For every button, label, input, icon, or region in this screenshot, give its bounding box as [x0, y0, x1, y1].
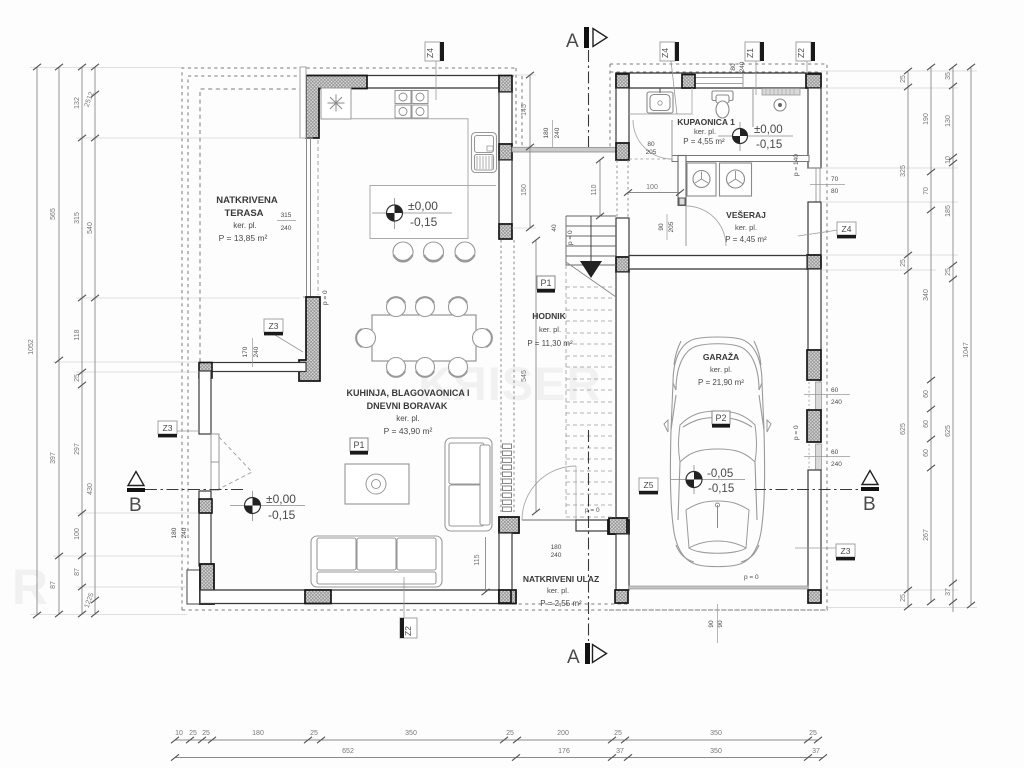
svg-text:240: 240: [554, 127, 561, 138]
section line B-B: [145, 489, 860, 491]
entrance SW hatched pier: [499, 517, 519, 533]
garage SE hatched square: [808, 590, 821, 603]
veseraj door leaf and arc: [685, 206, 687, 246]
dimension column 2 left: [58, 67, 60, 614]
svg-text:25: 25: [189, 730, 197, 737]
label box Z4 top-mid with leader: [660, 42, 679, 114]
svg-text:350: 350: [710, 748, 722, 755]
west window glazing: [303, 138, 313, 297]
shower partition: [752, 88, 754, 127]
svg-text:P = 4,45 m²: P = 4,45 m²: [725, 235, 767, 244]
svg-text:37: 37: [616, 748, 624, 755]
shower head: [774, 99, 786, 111]
svg-text:p = 0: p = 0: [585, 507, 600, 514]
label box Z4 right with leader: [798, 222, 856, 238]
garage bottom dashed eave: [609, 609, 828, 611]
passage dashed opening: [617, 160, 628, 218]
svg-text:60: 60: [923, 449, 930, 457]
svg-text:190: 190: [923, 113, 930, 125]
svg-text:KUHINJA, BLAGOVAONICA I: KUHINJA, BLAGOVAONICA I: [346, 388, 469, 398]
svg-text:180: 180: [252, 730, 264, 737]
svg-text:P = 11,30 m²: P = 11,30 m²: [527, 339, 573, 348]
svg-text:HODNIK: HODNIK: [532, 311, 566, 321]
svg-text:240: 240: [551, 552, 562, 559]
west living room wall lower: [199, 491, 211, 566]
svg-text:GARAŽA: GARAŽA: [703, 351, 739, 362]
svg-text:Z5: Z5: [644, 480, 654, 490]
dim 100 hodnik passage: [628, 192, 680, 194]
garage west wall lower: [616, 534, 629, 590]
tiny dim 315/240 window: [277, 212, 296, 232]
east wall hatched pier: [807, 255, 821, 269]
svg-text:P1: P1: [540, 278, 551, 288]
tiny dim 180/240 west door: [171, 527, 188, 538]
kitchen sink: [472, 133, 497, 173]
dimension column 2 right: [930, 67, 932, 602]
svg-text:35: 35: [945, 72, 952, 80]
dimension column 4 left: [94, 67, 96, 614]
bathroom door opening dashes: [629, 158, 672, 160]
tiny dim 60/240 east wall upper: [804, 387, 850, 406]
svg-text:P = 13,85 m²: P = 13,85 m²: [219, 233, 268, 243]
svg-text:132: 132: [74, 97, 81, 109]
dining chairs top row: [387, 298, 468, 317]
eave dashed outline left building outer: [182, 68, 828, 610]
dimension column 3 left: [81, 67, 83, 614]
tiny dim 90/240 entrance door: [551, 544, 562, 559]
svg-text:115: 115: [474, 554, 481, 565]
stairs direction line and arrow: [590, 216, 592, 261]
west wall of right building upper band: [616, 88, 629, 143]
svg-text:-0,15: -0,15: [708, 483, 734, 495]
veseraj south wall: [629, 256, 807, 270]
svg-text:70: 70: [923, 187, 930, 195]
east wall upper band: [808, 88, 821, 168]
svg-text:25: 25: [74, 374, 81, 382]
SW hatched pier: [200, 564, 214, 604]
west wall hatched pier 2: [616, 143, 629, 160]
kitchen NW corner hatched wall: [306, 76, 367, 139]
svg-text:25: 25: [614, 730, 622, 737]
east wall window A: [809, 382, 822, 410]
svg-text:80: 80: [730, 63, 737, 71]
svg-text:p = 0: p = 0: [744, 574, 759, 581]
svg-text:297: 297: [74, 443, 81, 455]
svg-text:240: 240: [281, 225, 292, 232]
SW footing rectangle: [187, 570, 200, 604]
svg-text:2512: 2512: [84, 91, 96, 108]
hatched square NW of living room: [199, 363, 212, 379]
west outer face strip above window: [300, 67, 306, 138]
tiny dim 170/240 left wall: [242, 338, 260, 367]
svg-text:176: 176: [558, 748, 570, 755]
garage west wall: [616, 272, 629, 518]
svg-text:80: 80: [647, 141, 655, 148]
svg-text:25: 25: [202, 730, 210, 737]
svg-text:130: 130: [945, 115, 952, 127]
svg-text:37: 37: [812, 748, 820, 755]
hodnik boundary dashed lines: [501, 240, 514, 512]
svg-text:Z4: Z4: [425, 48, 435, 58]
west door swing dashes: [219, 437, 252, 489]
terrace-living interior wall: [199, 363, 306, 372]
label box P2 garage: [712, 411, 730, 428]
svg-text:25: 25: [506, 730, 514, 737]
shower shelf: [762, 89, 800, 96]
svg-text:1047: 1047: [963, 342, 970, 358]
svg-text:180: 180: [551, 544, 562, 551]
bar stools: [393, 242, 475, 262]
svg-text:KUPAONICA 1: KUPAONICA 1: [677, 117, 735, 127]
room label veseraj: [725, 209, 767, 244]
svg-text:145: 145: [521, 104, 528, 116]
dimension column 4 right (1047): [970, 67, 972, 605]
svg-text:ker. pl.: ker. pl.: [233, 221, 257, 230]
svg-text:-0,15: -0,15: [410, 215, 438, 229]
svg-text:100: 100: [74, 528, 81, 540]
svg-text:p = 0: p = 0: [322, 290, 329, 305]
elevation marker living room: [230, 491, 305, 522]
dining chairs bottom row: [387, 358, 468, 377]
svg-text:Z2: Z2: [796, 48, 806, 58]
east wall hatched pier A: [807, 350, 821, 380]
bridge band between buildings: [512, 148, 616, 153]
svg-text:25: 25: [900, 259, 907, 267]
east wall mid band: [499, 160, 512, 224]
svg-text:118: 118: [74, 329, 81, 340]
svg-text:87: 87: [74, 568, 81, 576]
washing machine 1: [687, 163, 716, 196]
tiny dim 80/240 top window: [730, 61, 746, 72]
svg-text:267: 267: [923, 529, 930, 541]
top wall window opening: [695, 73, 743, 88]
garage east wall upper: [808, 269, 821, 350]
elevation marker garage: [671, 465, 745, 495]
label box Z5 garage with leader: [639, 478, 658, 494]
kitchen counter edge: [351, 119, 496, 186]
svg-text:ker. pl.: ker. pl.: [735, 223, 757, 232]
car mirrors: [664, 420, 771, 432]
label box Z3 upper-left with leader: [264, 319, 303, 352]
svg-text:B: B: [129, 495, 142, 516]
washbasin: [647, 92, 673, 113]
svg-text:315: 315: [281, 212, 292, 219]
svg-text:240: 240: [253, 346, 260, 357]
east wall hatched pier B: [807, 410, 821, 442]
NE hatched pier of left building: [499, 76, 512, 93]
east wall mid band: [808, 202, 821, 255]
svg-text:350: 350: [405, 730, 417, 737]
eave dashed outline right building: [610, 64, 827, 610]
svg-text:Z3: Z3: [163, 423, 173, 433]
south wall of living room: [200, 590, 516, 604]
dimension column 3 right: [952, 67, 954, 612]
svg-text:180: 180: [171, 527, 178, 538]
east wall window B: [809, 444, 822, 470]
svg-text:205: 205: [668, 221, 675, 232]
svg-text:NATKRIVENI ULAZ: NATKRIVENI ULAZ: [523, 574, 599, 584]
svg-text:p = 140: p = 140: [793, 154, 800, 176]
car center mark: [717, 505, 719, 528]
svg-text:VEŠERAJ: VEŠERAJ: [726, 209, 766, 220]
toilet: [712, 91, 733, 118]
svg-text:P = 21,90 m²: P = 21,90 m²: [698, 378, 744, 387]
right building top wall band: [616, 73, 821, 88]
section marker B right: [862, 471, 878, 485]
label box Z2 top with leader: [796, 42, 815, 74]
bottom dimension row 2: [175, 757, 823, 759]
svg-text:60: 60: [923, 390, 930, 398]
elevation marker kitchen: [372, 198, 452, 229]
west wall segment below passage: [616, 218, 629, 257]
svg-text:10: 10: [945, 156, 952, 164]
svg-text:P = 43,90 m²: P = 43,90 m²: [384, 426, 433, 436]
svg-text:ker. pl.: ker. pl.: [539, 325, 561, 334]
dim 110 near stairs: [599, 160, 601, 216]
svg-text:25: 25: [900, 594, 907, 602]
svg-text:652: 652: [342, 748, 354, 755]
svg-text:R: R: [12, 559, 48, 615]
east wall hatched pier 3: [499, 224, 512, 239]
east wall window: [808, 168, 821, 202]
bathroom counter: [629, 88, 692, 114]
svg-text:240: 240: [831, 399, 842, 406]
svg-text:60: 60: [831, 387, 839, 394]
svg-text:240: 240: [831, 461, 842, 468]
garage west hatched pier mid: [609, 518, 627, 534]
svg-text:185: 185: [945, 205, 952, 217]
svg-text:350: 350: [710, 730, 722, 737]
sliding door ladder symbol: [503, 444, 512, 511]
svg-text:110: 110: [591, 184, 598, 195]
garage door line: [629, 586, 808, 589]
svg-text:ker. pl.: ker. pl.: [396, 414, 420, 423]
car: [670, 337, 764, 567]
tiny dim 90/90 garage bottom: [708, 604, 724, 643]
dining chair left: [357, 329, 376, 348]
svg-text:P = 4,55 m²: P = 4,55 m²: [683, 137, 725, 146]
west door leaf: [211, 434, 219, 462]
svg-text:240: 240: [739, 61, 746, 72]
label box Z1 top with leader: [745, 42, 764, 95]
label box Z3 right with leader: [795, 544, 855, 560]
svg-text:625: 625: [945, 425, 952, 437]
stairs risers solid: [566, 216, 616, 265]
stairs risers dashed: [566, 265, 616, 517]
armchair: [445, 438, 492, 531]
svg-text:Z4: Z4: [842, 224, 852, 234]
bottom dimension row 1: [175, 739, 818, 741]
room label kitchen living: [346, 388, 469, 436]
svg-text:90: 90: [708, 620, 715, 628]
svg-text:A: A: [566, 31, 579, 52]
bathroom door leaf and arc: [671, 120, 673, 159]
coffee table: [345, 464, 409, 504]
svg-text:25: 25: [945, 268, 952, 276]
label box Z3 left with leader: [158, 421, 199, 437]
stairs break line: [566, 262, 616, 297]
south wall hatched square mid: [305, 590, 331, 604]
NE hatched pier: [806, 74, 821, 88]
svg-text:205: 205: [646, 149, 657, 156]
bathroom south wall: [672, 156, 809, 162]
elevation marker bathroom: [718, 122, 793, 151]
hatched square on west wall: [199, 499, 212, 513]
west living room wall upper: [199, 371, 211, 434]
garage east wall lower: [808, 470, 821, 590]
svg-text:P2: P2: [715, 413, 726, 423]
N mid hatched pier: [682, 75, 695, 89]
svg-text:565: 565: [50, 208, 57, 220]
label box P1 living: [350, 438, 368, 455]
svg-text:±0,00: ±0,00: [266, 492, 296, 506]
east wall hatched pier 2: [499, 144, 512, 160]
section marker B left: [128, 472, 144, 486]
dimension column 1 right: [907, 71, 909, 607]
entrance door leaf: [522, 519, 576, 521]
svg-text:25: 25: [900, 75, 907, 83]
svg-text:60: 60: [923, 420, 930, 428]
sofa: [311, 536, 442, 587]
svg-text:B: B: [863, 494, 876, 515]
room label kupaonica: [677, 117, 735, 146]
svg-text:540: 540: [87, 222, 94, 234]
p=0 labels: [322, 154, 800, 581]
south wall hatched square SE: [499, 590, 516, 604]
svg-text:90: 90: [717, 620, 724, 628]
svg-text:±0,00: ±0,00: [754, 124, 783, 136]
room label ulaz: [523, 574, 599, 608]
entrance west wall: [499, 533, 512, 590]
svg-text:150: 150: [521, 184, 528, 196]
svg-text:P1: P1: [353, 440, 364, 450]
tiny dim 90/205 veseraj door: [658, 214, 675, 240]
svg-text:Z3: Z3: [269, 321, 279, 331]
room label garaza: [698, 351, 744, 387]
svg-text:325: 325: [900, 165, 907, 177]
svg-text:60: 60: [831, 449, 839, 456]
entrance SE hatched pier: [608, 520, 629, 534]
svg-text:P = 2,55 m²: P = 2,55 m²: [540, 599, 582, 608]
garage SW hatched square: [615, 590, 628, 603]
tiny dim 190/240 kitchen window: [551, 224, 558, 232]
svg-text:70: 70: [831, 176, 839, 183]
terrace inner dashed boundary: [200, 89, 306, 362]
svg-text:625: 625: [900, 423, 907, 435]
svg-text:180: 180: [543, 127, 550, 138]
label box Z2 below sofa with leader: [400, 577, 417, 638]
dimension column 1 left (1052): [36, 67, 38, 615]
entrance south wall segment: [576, 520, 608, 531]
svg-text:ker. pl.: ker. pl.: [710, 365, 732, 374]
entrance west bottom hatched square: [499, 590, 511, 603]
svg-text:-0,15: -0,15: [756, 139, 782, 151]
extension lines right: [821, 71, 977, 608]
svg-text:-0,15: -0,15: [268, 508, 296, 522]
dining chair right: [473, 329, 492, 348]
svg-text:p = 0: p = 0: [793, 425, 800, 440]
west wall hatched pier 3: [616, 257, 629, 272]
svg-text:-0,05: -0,05: [707, 468, 733, 480]
tiny dim 60/240 east wall lower: [804, 449, 850, 468]
west L hatched pier at living room corner: [299, 297, 320, 381]
bathroom wall stub: [678, 156, 686, 206]
tiny dim 70/80 east window: [810, 176, 845, 195]
middle vertical dim 145/150: [529, 75, 531, 228]
room label hodnik: [527, 311, 573, 348]
svg-text:90: 90: [658, 223, 665, 231]
NW hatched pier right building: [616, 74, 629, 88]
left building: top wall band: [306, 76, 499, 89]
washing machine 2: [720, 163, 752, 196]
svg-text:200: 200: [557, 730, 569, 737]
room label terasa: [216, 195, 278, 243]
svg-text:DNEVNI BORAVAK: DNEVNI BORAVAK: [367, 401, 448, 411]
svg-text:NATKRIVENA: NATKRIVENA: [216, 195, 278, 206]
svg-text:ker. pl.: ker. pl.: [547, 586, 569, 595]
kitchen hood square: [321, 88, 351, 119]
svg-text:1052: 1052: [28, 339, 35, 355]
section line A-A: [588, 50, 590, 641]
svg-text:25: 25: [809, 730, 817, 737]
svg-text:25: 25: [310, 730, 318, 737]
svg-text:Z2: Z2: [403, 626, 413, 636]
dim 545 hodnik: [535, 240, 537, 512]
svg-text:170: 170: [242, 346, 249, 357]
svg-text:315: 315: [74, 212, 81, 224]
east wall upper band: [499, 92, 512, 144]
svg-text:240: 240: [181, 527, 188, 538]
kitchen stove 4 burners: [395, 91, 428, 119]
svg-text:80: 80: [831, 188, 839, 195]
svg-text:430: 430: [87, 483, 94, 495]
entrance door swing arc: [522, 466, 576, 520]
label box Z4 top-left with leader: [425, 42, 444, 100]
label box P1 hodnik: [537, 276, 555, 293]
svg-text:10: 10: [175, 730, 183, 737]
svg-text:A: A: [567, 647, 580, 668]
svg-text:37: 37: [945, 588, 952, 596]
dim 115 sofa: [485, 537, 487, 592]
svg-text:TERASA: TERASA: [224, 208, 263, 219]
svg-text:545: 545: [521, 370, 528, 382]
svg-text:p = 0: p = 0: [567, 230, 574, 245]
svg-text:Z4: Z4: [660, 48, 670, 58]
tiny dim 80/205 bathroom door: [646, 141, 657, 156]
watermark: [12, 357, 601, 615]
svg-text:ker. pl.: ker. pl.: [694, 127, 716, 136]
svg-text:100: 100: [646, 184, 658, 191]
extension lines left: [30, 68, 536, 615]
svg-text:87: 87: [50, 581, 57, 589]
svg-text:40: 40: [551, 224, 558, 232]
kitchen island: [370, 186, 468, 239]
tiny dim 180/240 middle top: [543, 120, 561, 147]
svg-text:Z1: Z1: [745, 48, 755, 58]
svg-text:Z3: Z3: [841, 546, 851, 556]
svg-text:±0,00: ±0,00: [408, 199, 438, 213]
dining table: [372, 315, 476, 361]
svg-text:340: 340: [923, 289, 930, 301]
svg-text:397: 397: [50, 452, 57, 464]
